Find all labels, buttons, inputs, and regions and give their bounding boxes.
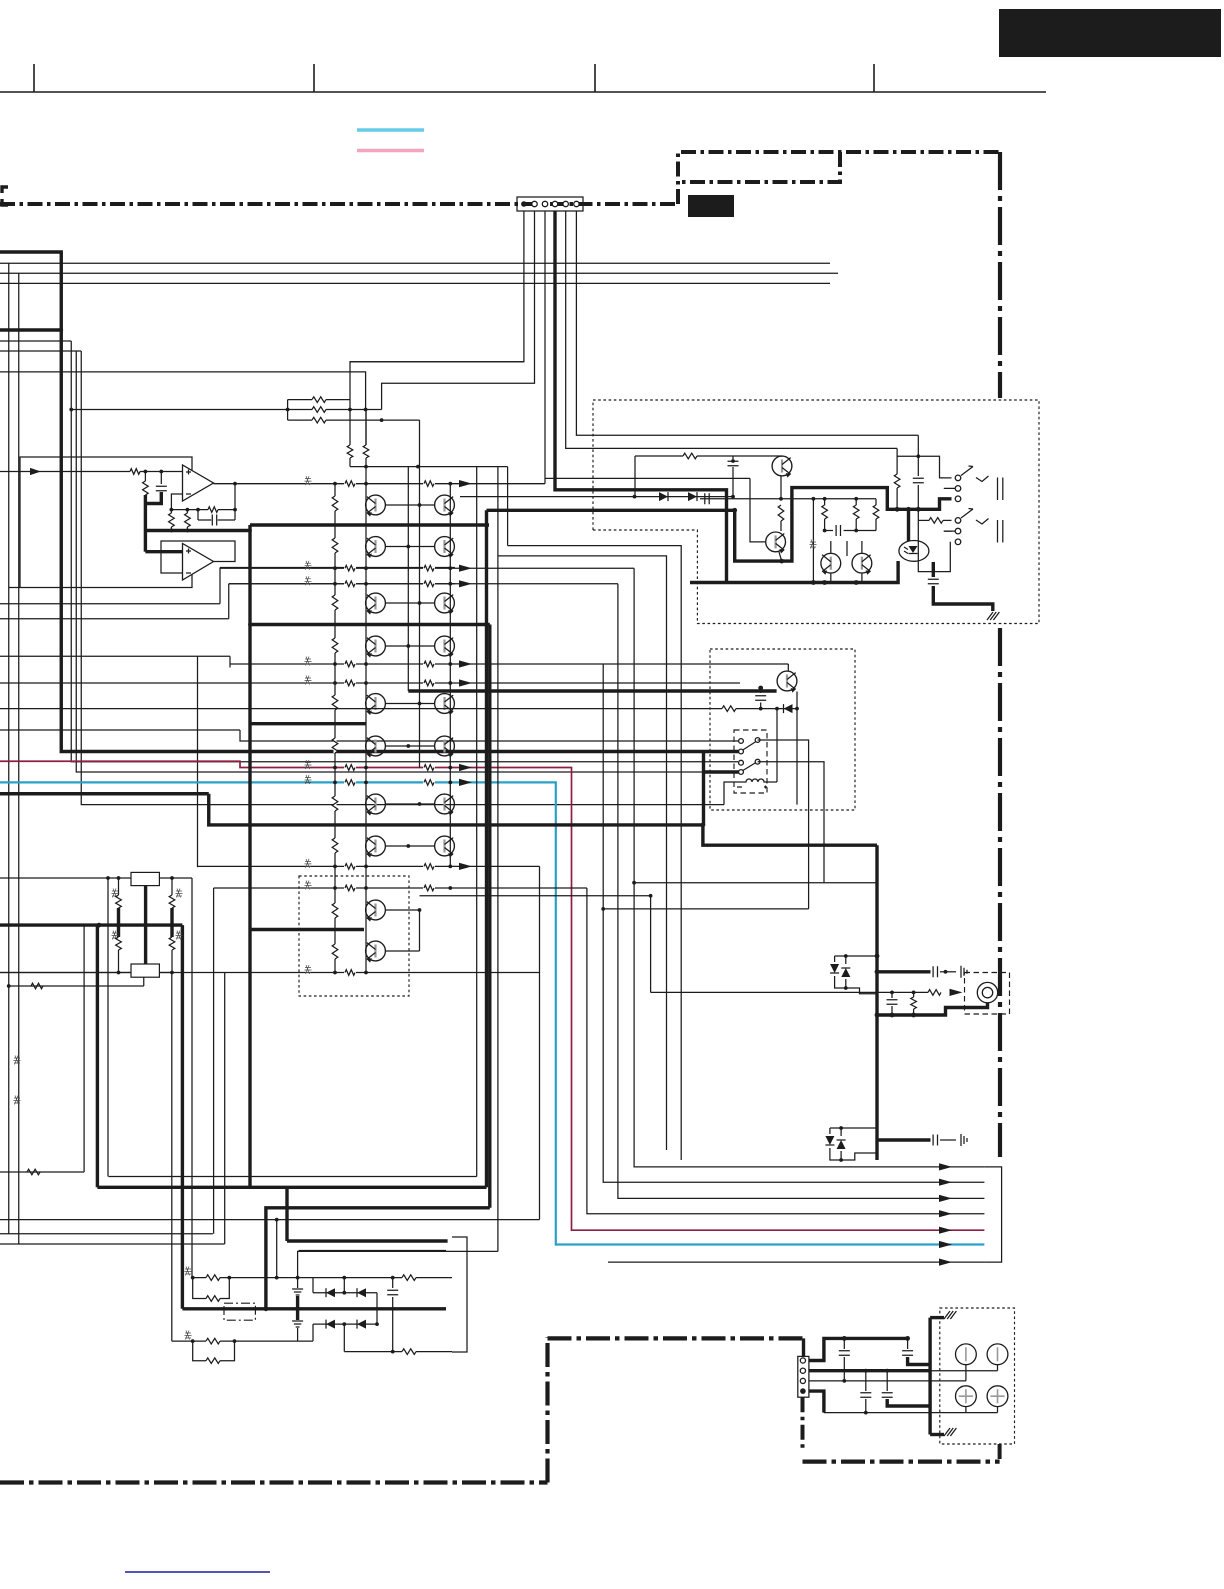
arrow out cyan [939,1241,952,1248]
wire thick ch3 [250,722,366,725]
wire diodeblk bot [313,1293,379,1352]
jack J1 [944,466,1003,502]
arrow out3 [939,1195,952,1202]
resistor R fb1 [169,510,175,533]
transistor Q5 [366,593,386,615]
wire thick bias row [145,529,252,533]
wire diode2 bottom [830,1148,877,1162]
wire spk row3 [809,1365,966,1381]
wire red row [0,760,984,1230]
capacitor C motor [887,992,898,1017]
wire link row 804 [386,802,434,806]
dotted box speaker [940,1308,1015,1444]
arrow motor [950,989,963,996]
wire nest v1 [634,568,984,1167]
resistor R net3 [288,417,420,423]
wire U2 plus thick [145,550,182,553]
diode D2 [688,492,697,501]
wire signal row4 [230,657,788,668]
wire L5 [0,372,366,410]
chassis dash-dot bottom vert [545,1338,549,1483]
wire row530 [825,525,876,536]
transistor Q8 [435,636,455,658]
wire thick ch2 [248,623,490,627]
wire link row 703.5 [386,702,434,706]
resistor R col8 [332,838,338,853]
chassis dash-dot conn down [801,1397,805,1450]
arrow red [333,764,472,771]
resistor R v1 [347,445,353,458]
transistor Q2 [435,495,455,516]
arrow cyan [333,779,472,786]
resistor R b1 [112,878,122,925]
wire row456 [635,453,782,496]
resistor R col10 [332,944,338,959]
resistor R net1 [288,397,350,420]
arrow out2 [939,1179,952,1186]
wire row618 [0,618,229,620]
wire nest v2 [618,584,985,1199]
chassis dash-dot bottom [0,1480,548,1484]
wire pin4 thick [555,211,727,583]
wire link row 603 [386,601,434,605]
wire thick ch4 [0,794,877,845]
dotted box pre-driver [299,876,409,996]
transistor Q15 [366,836,386,858]
wire pc out [918,509,951,571]
wire relay out2 [758,762,824,883]
wire Q20 base [750,478,765,542]
wire out row7 [608,1261,984,1263]
resistor R hp3 [873,499,879,531]
wire thick desc B [488,625,491,1208]
resistor R hp1 [822,499,828,533]
wire link row 846 [386,844,434,848]
black label box [688,195,734,217]
component K1 box [131,872,159,885]
wire spk row2 [809,1365,998,1373]
transistor Q20 [766,532,786,553]
wire v224 [224,973,226,1245]
wire row925 thick [0,923,182,928]
transistor Q3 [366,537,386,559]
transistor Q10 [435,694,455,716]
wire out bracket [984,1167,1001,1262]
wire thick 691 [408,686,776,691]
wire diode2 top [830,1126,877,1136]
ground hp [987,612,999,620]
wire row1277 ext [313,1275,452,1281]
capacitor C fb [198,510,235,526]
wire thick ch5 [251,928,364,931]
diode D9 [357,1288,366,1297]
wire v171 [171,973,173,1342]
diode D8 [326,1288,335,1297]
wire thick P1 [487,488,952,564]
capacitor C hp1 [728,456,739,497]
resistor R col7 [332,796,338,811]
resistor R b4 [169,925,182,972]
wire left col B [18,273,20,1244]
capacitor C s2 [902,1338,930,1364]
thermistor motor [911,992,917,1017]
legend cyan line [357,128,424,131]
wire pin2 [382,211,535,410]
wire link row 546.5 [386,545,434,549]
wire relay out1 [758,740,809,909]
relay contact c3 [739,759,760,765]
wire signal row1 [214,476,546,487]
connector CN2 pins [800,1358,806,1394]
dashed motor box [965,973,1010,1015]
chassis border bracket [2,187,8,205]
wire thick bus1308 [182,1306,446,1311]
resistor R col4 [332,638,338,653]
transistor Q22 [852,553,872,574]
wire thick desc C [181,925,184,1309]
wire row708 [0,707,799,711]
ground g1 [292,1287,303,1309]
wire diode row [460,495,735,499]
capacitor C jack [913,435,924,509]
transistor Q19 [772,456,792,478]
wire row361 stub [350,361,524,363]
connector CN1 pins [521,201,579,207]
transistor Q12 [435,736,455,758]
diode D7 [837,1140,846,1149]
op-amp U1 [183,465,214,501]
squiggle hp [810,540,817,549]
wire cyan row [0,775,984,1245]
transistor Q4 [435,537,455,559]
wire row882 [632,881,877,885]
wire motor feed [651,990,941,996]
wire signal row3 [229,576,618,587]
wire net bracket [452,1237,467,1352]
wire v192 [191,878,193,1278]
wire row1172 [0,925,84,1175]
ground spk bot [944,1428,956,1436]
wire v213 [213,888,215,1234]
arrow out4 [939,1210,952,1217]
speaker terminal T3 [956,1386,977,1407]
dash-dot small box [224,1303,255,1320]
wire signal row7 [214,881,587,891]
wire L4 [0,351,741,805]
resistor R hp2 [853,499,859,533]
resistor R p1a [206,1275,220,1281]
wire thick P3 [690,561,898,585]
relay contact c4 [739,763,756,775]
wire thick bus1241 [287,1187,448,1241]
resistor R net2 [69,407,381,413]
wire row895 [420,894,653,993]
wire pair1 row [185,1267,314,1280]
diode D5 [841,968,850,977]
resistor R col3 [332,595,338,610]
motor M1 [977,982,997,1002]
op-amp U2 [183,544,214,581]
photocoupler PC1 [899,541,929,562]
wire row1219 [0,1218,540,1278]
wire diodeblk top [313,1276,377,1295]
connector CN2 body [798,1356,809,1397]
wire nest v4 [587,888,985,1214]
transistor Q7 [366,636,386,658]
jack J2 [944,509,1003,545]
wire opamp outer box [9,457,192,588]
capacitor C input [145,472,166,504]
wire row1351 [344,1349,452,1355]
capacitor C s3 [860,1371,871,1415]
wire mid col D [419,420,421,767]
wire U1 fb node [214,482,546,486]
wire opamp input row [0,469,183,475]
wire row466 [350,465,508,1252]
wire row908 [603,908,808,910]
wire thick motor row1 [877,966,967,978]
wire signal row5 [0,676,740,687]
component K2 box [131,964,159,977]
resistor R col5 [332,695,338,710]
wire thick motor vert [875,845,880,1160]
wire node col A [334,484,336,973]
legend pink line [357,149,424,152]
wire pin5 [566,211,897,448]
wire bus triple [0,263,838,283]
dotted box relay [710,649,855,810]
diode D11 [357,1320,366,1329]
wire thick row1187 [97,1186,486,1189]
wire nest row545 [508,546,682,1160]
capacitor C n1 [387,1276,398,1354]
arrow input [30,468,41,475]
wire emitter down [796,709,798,805]
resistor R b3 [169,878,182,925]
wire thick spk gnd [930,1318,944,1435]
diode D1 [659,492,668,501]
wire row878 [0,876,192,880]
ground spk top [944,1311,956,1319]
relay contact c1 [739,738,760,744]
dashed relay switch box [734,730,767,793]
wire row498 [700,493,876,504]
wire link row 505 [386,503,434,507]
wire nest v3 [601,664,984,1182]
chassis dash-dot shelf [678,152,1000,204]
wire pin1 [350,211,524,467]
wire signal row2 [220,561,634,572]
chassis dash-dot bottom row3 [803,1459,1000,1463]
wire row656 [0,656,230,867]
wire thick L1 [0,252,741,752]
wire thick ch1 [250,523,489,526]
wire thick relay vert [702,752,705,825]
wire pair1 loop [193,1278,230,1302]
wire spk row4 [809,1391,998,1413]
transistor Q17 [366,900,386,922]
transistor Q9 [366,694,386,716]
capacitor C s4 [882,1371,930,1406]
transistor Q11 [366,736,386,758]
transistor Q14 [435,794,455,816]
speaker terminal T2 [987,1344,1008,1365]
wire link row 646 [386,644,434,648]
wire row1244 [0,1243,225,1245]
wire row1233 [0,1233,213,1235]
capacitor C s1 [839,1338,850,1382]
wire row583 jog [229,584,455,619]
wire q23 base [787,664,789,671]
resistor R jack top [894,448,951,509]
wire U2 out row [220,568,455,604]
blue note underline [125,1571,270,1573]
wire relay drive [776,709,778,782]
wire mid col C [407,467,409,691]
wire U1 minus [171,494,182,510]
wire pin3 [545,211,750,484]
wire pair2 row [172,1331,313,1344]
transistor Q23 [777,671,797,693]
wire L3 [0,341,738,762]
arrow out1 [939,1163,952,1170]
chassis dash-dot inner step [678,152,840,182]
resistor R v2 [363,410,369,459]
wire conn drop [802,1338,805,1356]
wire row1250b [299,1250,446,1252]
resistor R col6 [332,738,338,753]
wire diode pair top [835,954,877,964]
wire q23 emitter [796,692,798,709]
dotted box headphone [593,400,1039,624]
transistor Q6 [435,593,455,615]
wire pin6 [576,211,918,435]
arrow out red [939,1227,952,1234]
wire row603 [0,603,220,605]
relay coil [737,779,767,789]
wire Q17 link [386,908,421,951]
transistor Q16 [435,836,455,858]
wire signal row8 [0,965,540,975]
relay contact c2 [739,742,756,754]
transistor Q21 [821,553,841,574]
resistor R fb2 [185,510,191,533]
resistor R col2 [332,538,338,553]
capacitor C relay [755,691,766,709]
wire U1 fb row [170,484,237,520]
diode D6 [825,1136,834,1145]
wire pc gnd [928,562,993,611]
wire spk row1 [809,1336,910,1361]
wire thick matrix vert [248,525,251,1187]
wire q21 stubs [831,541,862,583]
wire diode pair bottom [835,976,877,994]
wire row986 [7,977,144,989]
wire left col A [8,263,10,1234]
wire row972 left [0,971,174,975]
wire thick L2 [0,328,63,332]
chassis dash-dot border top [0,202,678,206]
wire U2 feedback loop [161,541,235,573]
diode D10 [326,1320,335,1329]
speaker terminal T1 [956,1344,977,1365]
resistor R b2 [112,925,122,972]
connector CN1 body [517,197,583,211]
wire v97 thick [96,925,99,1187]
squiggle b5 [14,1056,21,1105]
chassis dash-dot bottom row2 [548,1336,803,1340]
wire Q19 chain [778,476,784,531]
transistor Q18 [366,941,386,963]
wire pair2 loop [193,1341,235,1363]
chassis dash-dot right stub [998,1444,1002,1462]
wire thick K link [144,886,147,964]
title block [999,9,1221,57]
wire thick motor row2 [877,1003,988,1015]
speaker terminal T4 [987,1386,1008,1407]
wire v108 [107,878,109,1177]
resistor R p2a [206,1338,220,1344]
resistor R col9 [332,903,338,918]
ground g2 [292,1309,303,1341]
diode D4 [830,964,839,973]
wire thick motor row3 [877,1134,967,1146]
resistor R relay [722,706,736,712]
wire link row 746 [386,744,434,748]
resistor R input shunt [143,472,149,504]
wire out col E [449,484,451,867]
arrow out7 [939,1259,952,1266]
wire Q20 em [779,552,782,561]
wire thick bias vert [144,504,147,552]
wire v813 [812,499,814,583]
wire coil return [724,782,777,805]
transistor Q1 [366,495,386,516]
wire row730 [0,730,741,741]
wire nest row555 [498,556,667,1150]
page ruler line [0,64,1046,92]
wire thick row1207 [266,1208,490,1309]
chassis dash-dot right vertical [998,152,1002,1157]
wire row1251 [298,1251,498,1287]
wire node col B [365,410,367,973]
wire v539 [539,866,541,1219]
diode D3 [784,704,793,713]
wire signal row6 [198,859,540,870]
resistor R col1 [332,496,338,511]
wire row1176 [109,1176,477,1178]
wire thick desc A [485,510,488,1187]
transistor Q13 [366,794,386,816]
